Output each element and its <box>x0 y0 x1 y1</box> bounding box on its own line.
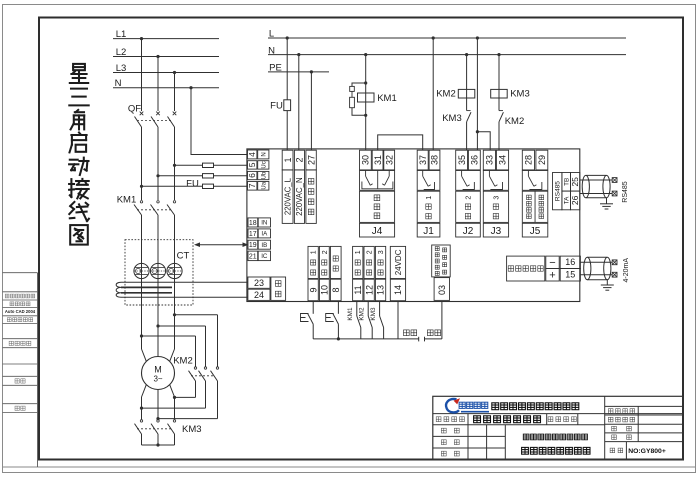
terminal 24 <box>248 289 270 300</box>
pin 15 <box>560 269 580 282</box>
start pushbutton 1 (from pin 9) <box>312 302 314 314</box>
svg-text:35: 35 <box>457 155 467 165</box>
pin 16 <box>560 256 580 268</box>
title char 启 <box>70 133 87 153</box>
svg-text:3: 3 <box>378 250 385 254</box>
cell label 审核 <box>441 428 459 433</box>
svg-text:1: 1 <box>311 250 318 254</box>
wire KM2p2 to left phase <box>142 407 206 409</box>
coil KM1 <box>358 93 375 102</box>
CT on phase at x=158 <box>150 263 165 278</box>
wire to terminal 33 <box>477 132 490 150</box>
wire L2 drop <box>157 57 159 112</box>
relay block J4 (保护点) <box>360 150 372 170</box>
svg-text:IB: IB <box>261 242 267 249</box>
svg-text:2: 2 <box>322 250 329 254</box>
coil KM2 <box>458 89 475 98</box>
KM3 NC tick <box>467 110 471 112</box>
snubber branch bottom <box>352 108 366 116</box>
svg-text:Ua: Ua <box>261 181 267 189</box>
snubber resistor <box>350 97 355 107</box>
wire L1 <box>113 38 219 40</box>
svg-text:2: 2 <box>465 196 472 200</box>
wire N to terminal 2 <box>298 55 300 150</box>
svg-text:1: 1 <box>283 157 293 162</box>
svg-text:19: 19 <box>249 242 257 249</box>
pin 19 IB <box>248 240 258 249</box>
terminal 12 <box>364 246 374 278</box>
dept name 格瑞电子工程部 <box>474 416 541 423</box>
junction tap M <box>156 324 159 327</box>
label 签名 <box>15 379 25 383</box>
J4 contacts <box>360 171 395 191</box>
junction on N <box>497 53 500 56</box>
svg-text:31: 31 <box>373 155 383 165</box>
label 本地 <box>404 330 417 336</box>
wire to terminal 34 <box>498 122 500 150</box>
junction on N <box>364 53 367 56</box>
title char 线 <box>69 202 89 221</box>
company name 苍南格瑞电子有限公司 <box>492 403 579 410</box>
analog output block 模拟量输出 <box>507 256 545 281</box>
svg-text:NO:GY800+: NO:GY800+ <box>628 448 666 455</box>
pin 17 IA <box>248 229 258 238</box>
junction L2 <box>156 55 159 58</box>
svg-text:−: − <box>549 257 555 269</box>
label 日期 <box>15 406 25 410</box>
svg-text:J5: J5 <box>530 226 541 237</box>
svg-text:03: 03 <box>437 285 447 295</box>
svg-text:7: 7 <box>247 183 257 188</box>
KM3 linkage <box>137 428 171 430</box>
wire PE to terminal 27 <box>310 72 312 150</box>
wire L2 <box>113 56 219 58</box>
J4 label box <box>360 191 395 222</box>
svg-text:15: 15 <box>565 270 575 280</box>
title block <box>433 396 683 459</box>
svg-text:18: 18 <box>249 220 257 227</box>
svg-text:KM3: KM3 <box>370 307 377 321</box>
pin 7 Ua <box>248 182 257 191</box>
pin 2 <box>294 150 304 170</box>
svg-text:14: 14 <box>393 285 403 295</box>
cell label 比例 <box>612 426 632 431</box>
svg-text:Auto CAD 2004: Auto CAD 2004 <box>5 309 36 314</box>
svg-text:KM1: KM1 <box>347 307 354 321</box>
svg-text:KM3: KM3 <box>182 424 202 435</box>
svg-text:1: 1 <box>355 250 362 254</box>
svg-text:Ub: Ub <box>261 171 267 179</box>
start pushbutton 2 (from pin 8) <box>337 302 339 314</box>
junction on N <box>465 53 468 56</box>
cell label 设计 <box>441 451 459 456</box>
wire L1 drop <box>141 39 143 111</box>
pin 1 <box>282 150 293 170</box>
svg-text:8: 8 <box>331 287 341 292</box>
KM1 linkage <box>137 209 171 211</box>
svg-text:KM2: KM2 <box>173 356 193 367</box>
wire L to terminal 38 <box>432 38 434 150</box>
wire into motor top <box>157 349 159 357</box>
wire tap R <box>175 314 218 316</box>
wire tap L <box>142 335 196 337</box>
pin 27 <box>306 150 316 170</box>
wire L <box>268 37 626 39</box>
svg-text:24VDC: 24VDC <box>394 249 403 275</box>
relay block J1 <box>417 150 428 170</box>
svg-text:2: 2 <box>295 157 305 162</box>
label 远程 <box>427 330 440 336</box>
title char 动 <box>69 158 88 175</box>
title char 图 <box>70 225 88 245</box>
CT on phase at x=174.5 <box>167 263 182 278</box>
snubber capacitor <box>350 86 355 91</box>
logo text 格瑞电子 <box>459 402 488 408</box>
wire motor out bottom <box>157 390 159 419</box>
svg-text:3~: 3~ <box>153 375 162 384</box>
terminal 11 <box>353 246 363 278</box>
svg-text:M: M <box>154 365 162 375</box>
svg-text:4-20mA: 4-20mA <box>623 258 630 283</box>
wire motor out LL <box>142 385 147 397</box>
svg-text:30: 30 <box>361 155 371 165</box>
terminal 14 <box>390 246 405 278</box>
cell label 图号 <box>610 448 623 453</box>
junction on L <box>432 36 435 39</box>
jumper terminal 31 to 37 <box>378 135 423 150</box>
svg-text:27: 27 <box>306 155 316 165</box>
drawing name 星三角启动接线图 <box>522 447 590 454</box>
wire L3 <box>113 72 219 74</box>
junction tap R <box>173 313 176 316</box>
J4 name box <box>360 223 395 237</box>
svg-text:37: 37 <box>418 155 428 165</box>
svg-text:16: 16 <box>565 257 575 267</box>
svg-text:32: 32 <box>384 155 394 165</box>
wire into motor UL <box>142 349 147 361</box>
svg-text:KM2: KM2 <box>358 307 365 321</box>
svg-text:IC: IC <box>261 253 268 260</box>
svg-text:+: + <box>549 269 555 281</box>
svg-text:13: 13 <box>376 285 386 295</box>
cell label 设计代号 <box>608 409 634 414</box>
svg-text:N: N <box>261 152 267 156</box>
pin 21 IC <box>248 251 258 261</box>
wire to terminal 03 <box>441 302 443 339</box>
common bus <box>313 338 419 340</box>
junction L1 <box>140 37 143 40</box>
svg-text:FU: FU <box>270 100 283 111</box>
relay block J3 <box>483 150 495 170</box>
svg-text:220VAC_N: 220VAC_N <box>295 177 304 215</box>
title char 角 <box>71 110 85 129</box>
wire tap M <box>158 325 206 327</box>
terminal 10 <box>319 246 329 278</box>
svg-text:12: 12 <box>364 285 374 295</box>
wire 24VDC down <box>397 302 399 339</box>
label 底图总号 <box>9 341 31 345</box>
svg-text:4: 4 <box>247 152 257 157</box>
svg-text:IA: IA <box>261 231 268 238</box>
svg-text:10: 10 <box>320 285 330 295</box>
svg-text:KM2: KM2 <box>436 89 456 100</box>
svg-text:34: 34 <box>498 155 508 165</box>
svg-text:21: 21 <box>249 253 257 260</box>
junction on N <box>297 53 300 56</box>
RS485 terminal block <box>553 173 562 210</box>
svg-text:24: 24 <box>254 290 264 300</box>
wire N left <box>113 87 219 89</box>
svg-text:KM1: KM1 <box>377 93 397 104</box>
wire PE <box>268 71 329 73</box>
junction on PE <box>310 70 313 73</box>
relay unit body <box>247 149 580 302</box>
QF linkage <box>137 120 171 122</box>
company logo swoosh <box>446 399 459 412</box>
zero-sequence CT <box>121 281 248 283</box>
terminal 23 <box>248 277 270 288</box>
wire N <box>268 54 626 56</box>
logo small latin text <box>461 411 489 413</box>
left margin info column <box>37 273 39 467</box>
svg-text:FU: FU <box>186 178 199 189</box>
terminal 03 权限控制/或外部故障 <box>432 245 451 277</box>
wire L to terminals 36/33 <box>476 38 478 150</box>
wire L3 drop <box>174 73 176 112</box>
relay block J5 <box>522 150 534 170</box>
svg-text:J4: J4 <box>372 226 383 237</box>
svg-text:6: 6 <box>247 173 257 178</box>
label 零序 <box>271 277 286 300</box>
svg-text:17: 17 <box>249 231 257 238</box>
title char 星 <box>70 64 88 83</box>
wire KM2p1 to right phase <box>175 396 196 398</box>
cell label 分项名称 <box>548 417 576 422</box>
local/remote selector 本地/远程 <box>418 337 420 342</box>
svg-text:5: 5 <box>247 162 257 167</box>
junction L3 <box>173 71 176 74</box>
svg-text:Uc: Uc <box>261 161 267 168</box>
svg-text:RS485: RS485 <box>555 181 562 201</box>
4-20mA shielded cable <box>580 261 612 263</box>
terminal 9 <box>308 246 318 278</box>
cell label 校对 <box>441 440 459 445</box>
junction <box>476 130 479 133</box>
svg-text:IN: IN <box>261 220 267 227</box>
svg-text:220VAC_L: 220VAC_L <box>283 177 292 215</box>
pin 5 Uc <box>248 161 257 169</box>
wire N-KM1coil-term30 <box>365 55 367 150</box>
snubber branch top <box>352 83 366 86</box>
label 旧底图总号 <box>7 318 32 322</box>
KM2 linkage <box>191 375 214 377</box>
RS485 shielded cable <box>580 179 612 181</box>
svg-text:KM3: KM3 <box>510 89 530 100</box>
svg-text:25: 25 <box>570 177 580 187</box>
svg-text:29: 29 <box>537 155 547 165</box>
svg-text:J3: J3 <box>491 226 502 237</box>
wire below motor right <box>174 397 176 419</box>
wire N to terminal 4 <box>191 88 248 155</box>
junction N <box>189 86 192 89</box>
pin 4 N <box>248 150 257 159</box>
svg-text:3: 3 <box>493 196 500 200</box>
label 普通用性登记 <box>5 294 35 298</box>
svg-text:28: 28 <box>524 155 534 165</box>
svg-text:CT: CT <box>177 250 190 261</box>
title char 三 <box>69 89 88 106</box>
svg-text:36: 36 <box>470 155 480 165</box>
CT enclosure (dashed) <box>125 240 193 305</box>
cell label 日期 <box>612 435 632 440</box>
svg-text:33: 33 <box>485 155 495 165</box>
CT secondary common wire with arrows <box>196 244 247 246</box>
junction tap L <box>140 334 143 337</box>
svg-text:9: 9 <box>308 287 318 292</box>
pin 18 IN <box>248 218 258 227</box>
relay block J2 <box>456 150 468 170</box>
motor M 3~ <box>142 357 175 390</box>
svg-text:1: 1 <box>426 196 433 200</box>
svg-text:J2: J2 <box>463 226 474 237</box>
svg-text:QF: QF <box>128 104 141 115</box>
svg-text:11: 11 <box>353 285 363 294</box>
wire below motor left <box>141 397 143 419</box>
terminal 13 <box>375 246 385 278</box>
junction on L <box>476 36 479 39</box>
terminal 8 <box>330 246 341 278</box>
device name 电动机测控保护装置 <box>523 434 587 440</box>
junction star point <box>156 443 159 446</box>
wire motor out LR <box>170 385 175 397</box>
cell label 设计阶段 <box>608 417 634 422</box>
wire to terminal 35 <box>466 122 468 150</box>
cell label 工程名称 <box>436 417 464 422</box>
KM2 NC blade <box>499 112 503 122</box>
wire L to terminal 1 <box>286 111 288 150</box>
wire KM2p3 to mid phase <box>158 418 218 420</box>
KM2 NC tick <box>499 110 503 112</box>
svg-text:26: 26 <box>570 195 580 205</box>
svg-text:KM2: KM2 <box>505 116 525 127</box>
coil KM3 <box>491 89 508 98</box>
wire into motor UR <box>170 349 175 361</box>
junction bus <box>337 337 340 340</box>
svg-text:KM3: KM3 <box>442 113 462 124</box>
junction on L <box>286 36 289 39</box>
svg-text:KM1: KM1 <box>117 194 137 205</box>
svg-text:RS485: RS485 <box>622 181 629 203</box>
svg-text:23: 23 <box>254 278 264 288</box>
star point bus <box>142 444 175 446</box>
svg-text:2: 2 <box>367 250 374 254</box>
KM3 NC blade <box>467 112 471 122</box>
label CAD制图 <box>10 302 30 306</box>
svg-text:38: 38 <box>430 155 440 165</box>
title char 接 <box>69 179 89 199</box>
pin 6 Ub <box>248 171 257 179</box>
svg-text:J1: J1 <box>423 226 434 237</box>
CT on phase at x=141.5 <box>134 263 149 278</box>
